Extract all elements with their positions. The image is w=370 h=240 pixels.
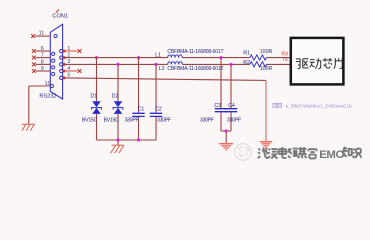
C3 value label 330PF: [200, 117, 214, 123]
pin 7 wire: [36, 57, 50, 59]
driver chip U1 box: [291, 38, 344, 85]
pin 11 bubble: [54, 35, 57, 38]
sheet background: [0, 0, 370, 169]
pin 1 bubble: [60, 49, 63, 52]
pin 10 wire: [29, 85, 50, 87]
svg-text:CBFBMA-11-160808-601T: CBFBMA-11-160808-601T: [167, 66, 223, 72]
net label TX: [282, 57, 289, 63]
D1 refdes label: [90, 93, 97, 99]
svg-text:C4: C4: [228, 103, 235, 109]
D1 value label BV15C: [82, 118, 97, 124]
net label RX: [281, 51, 289, 57]
pin 4 number label: [67, 66, 70, 72]
bottom rail wire (D1-D2-C1-C2): [97, 139, 157, 141]
pin 3 dot: [63, 63, 66, 66]
pin 6 no-connect X: [32, 49, 36, 53]
wire net C (pin5 ground run): [64, 78, 266, 81]
svg-text:10: 10: [45, 81, 51, 87]
junction C1/rail: [137, 138, 140, 141]
svg-text:L2: L2: [159, 66, 165, 72]
svg-text:100R: 100R: [260, 49, 273, 55]
capacitor C4: [230, 64, 232, 131]
earth ground (net C): [260, 142, 272, 148]
svg-text:9: 9: [41, 66, 44, 72]
wire net A (L1 to R1): [182, 57, 250, 59]
TVS diode D2: [117, 64, 119, 140]
D2 value label BV15C: [104, 118, 119, 124]
pin 6 wire: [36, 50, 50, 52]
junction D1/net A: [95, 56, 98, 59]
pin 5 number label: [67, 73, 70, 79]
svg-text:TX: TX: [282, 57, 289, 63]
pin 8 wire: [36, 63, 50, 65]
connector CON1 body: [50, 24, 62, 99]
pin 4 bubble: [60, 69, 63, 72]
svg-text:330PF: 330PF: [125, 118, 139, 124]
svg-text:R2: R2: [243, 60, 250, 66]
capacitor C2: [155, 64, 157, 140]
pin 3 number label: [67, 59, 70, 65]
svg-text:100R: 100R: [260, 66, 273, 72]
wire net A (pin2 to L1): [64, 57, 168, 59]
svg-text:BV15C: BV15C: [82, 118, 97, 124]
pin 10 number label: [45, 81, 51, 87]
pin 1 stub wire: [64, 50, 77, 52]
watermark text (CJK: qian tan dian ci jian rong EMC zhi shi): [258, 147, 317, 158]
junction D2/net B: [116, 63, 119, 66]
pin 3 bubble: [60, 63, 63, 66]
watermark logo circle: [235, 144, 252, 161]
ground stem (rail): [117, 140, 119, 145]
pin 1 dot: [63, 50, 66, 53]
junction C2/net B: [154, 63, 157, 66]
svg-text:- u_5f9d74de65ce1_Z455eaoCLb: - u_5f9d74de65ce1_Z455eaoCLb: [283, 103, 352, 108]
pin 6 number label: [41, 46, 44, 52]
C2 refdes label: [155, 107, 162, 113]
R1 refdes label: [243, 51, 250, 57]
svg-text:RS232: RS232: [39, 94, 56, 100]
RS232 label: [39, 94, 56, 100]
wire net C vertical drop to ground: [265, 80, 267, 142]
pin 1 no-connect X: [78, 49, 82, 53]
pin 2 number label: [67, 52, 70, 58]
wire net B (L2 to R2): [182, 63, 250, 65]
pin 9 wire: [36, 70, 50, 72]
pin 11 no-connect X: [31, 34, 35, 38]
C3 refdes label: [214, 103, 221, 109]
ground wire from pin 10: [28, 86, 30, 124]
wire net A (R1 to driver box RX): [266, 57, 290, 59]
pin 11 wire: [35, 35, 50, 37]
pin 9 no-connect X: [32, 69, 36, 73]
pin 8 no-connect X: [32, 63, 36, 67]
chassis ground (rail): [111, 145, 124, 153]
pin 8 number label: [41, 59, 44, 65]
pin 9 bubble: [52, 72, 55, 75]
svg-text:C3: C3: [214, 103, 221, 109]
pin 9 number label: [41, 66, 44, 72]
C4 refdes label: [228, 103, 235, 109]
L2 refdes label: [159, 66, 165, 72]
pin 1 number label: [67, 46, 70, 52]
svg-text:C2: C2: [155, 107, 162, 113]
pin 2 bubble: [60, 56, 63, 59]
C3/C4 rail wire: [221, 130, 231, 132]
junction C4/net B: [229, 63, 232, 66]
capacitor C1: [138, 58, 140, 140]
pin 4 no-connect X: [78, 69, 82, 73]
connector CON1 refdes label: [52, 14, 68, 20]
svg-text:330PF: 330PF: [200, 117, 214, 123]
pin 6 bubble: [52, 52, 55, 55]
earth ground (C3/C4): [219, 144, 233, 150]
pin 5 bubble: [60, 76, 63, 79]
R1 value label 100R: [260, 49, 273, 55]
svg-text:6: 6: [41, 46, 44, 52]
svg-text:CBFBMA-11-160808-601T: CBFBMA-11-160808-601T: [167, 49, 223, 55]
red dot marker above CON1: [56, 9, 59, 12]
svg-text:8: 8: [41, 59, 44, 65]
ferrite bead L1: [168, 55, 183, 58]
TVS diode D1: [96, 58, 98, 140]
svg-text:330PF: 330PF: [157, 118, 171, 124]
resistor R2: [250, 62, 267, 67]
junction C3/net A: [219, 56, 222, 59]
C4 value label 330PF: [227, 117, 241, 123]
ferrite bead L2: [168, 62, 183, 65]
pin 7 number label: [41, 53, 44, 59]
sheet annotation text (blue): [273, 103, 352, 108]
svg-text:D1: D1: [90, 93, 97, 99]
C2 value label 330PF: [157, 118, 171, 124]
resistor R1: [250, 55, 267, 60]
pin 4 stub wire: [64, 70, 77, 72]
svg-text:R1: R1: [243, 51, 250, 57]
svg-text:BV15C: BV15C: [104, 118, 119, 124]
pin 5 dot: [63, 76, 66, 79]
svg-text:CON1: CON1: [52, 14, 68, 20]
watermark text zhi shi glyphs: [342, 147, 362, 158]
L2 value label CBFBMA-11-160808-601T: [167, 66, 223, 72]
capacitor C3: [220, 58, 222, 131]
R2 refdes label: [243, 60, 250, 66]
ground stem (C3/C4): [225, 131, 227, 144]
D2 refdes label: [112, 93, 119, 99]
svg-text:L1: L1: [155, 52, 161, 58]
C1 value label 330PF: [125, 118, 139, 124]
junction C3-C4 rail: [224, 129, 227, 132]
pin 11 number label: [39, 31, 45, 37]
wire net B (pin3 to L2): [64, 63, 168, 65]
svg-text:C1: C1: [138, 107, 145, 113]
pin 7 bubble: [52, 59, 55, 62]
C1 refdes label: [138, 107, 145, 113]
svg-text:330PF: 330PF: [227, 117, 241, 123]
pin 10 bubble: [50, 84, 53, 87]
pin 4 dot: [63, 70, 66, 73]
R2 value label 100R: [260, 66, 273, 72]
svg-text:7: 7: [41, 53, 44, 59]
watermark text EMC: [319, 149, 343, 161]
chassis ground (left, RS232 shell): [22, 124, 35, 130]
pin 8 bubble: [52, 66, 55, 69]
L1 value label CBFBMA-11-160808-601T: [167, 49, 223, 55]
junction D2/rail: [116, 138, 119, 141]
svg-text:11: 11: [39, 31, 45, 37]
pin 7 no-connect X: [32, 56, 36, 60]
L1 refdes label: [155, 52, 161, 58]
svg-text:D2: D2: [112, 93, 119, 99]
wire net B (R2 to driver box TX): [266, 63, 290, 65]
svg-text:EMC: EMC: [319, 149, 343, 161]
pin 2 dot: [63, 56, 66, 59]
driver chip label (CJK: qu dong xin pian): [296, 58, 342, 69]
junction C1/net A: [137, 56, 140, 59]
